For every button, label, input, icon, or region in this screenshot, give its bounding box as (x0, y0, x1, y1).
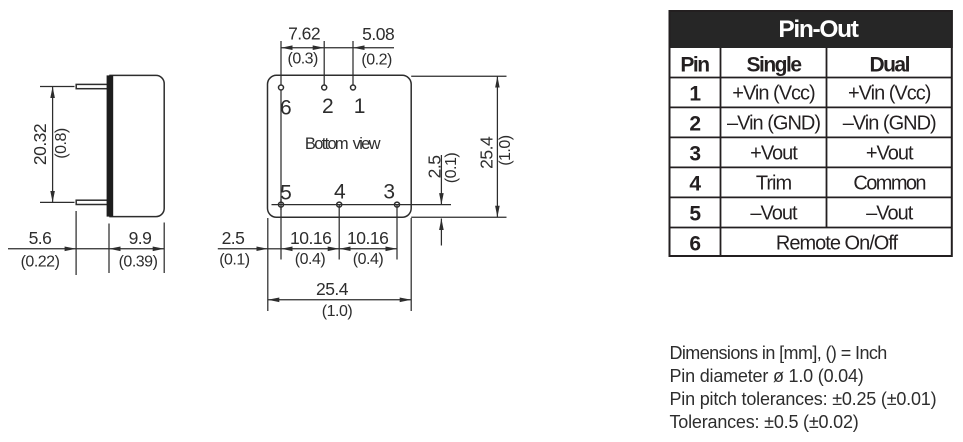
svg-text:25.4: 25.4 (476, 136, 496, 169)
svg-text:–Vin (GND): –Vin (GND) (727, 112, 820, 134)
svg-text:20.32: 20.32 (30, 124, 50, 165)
svg-text:Pin-Out: Pin-Out (778, 16, 858, 43)
svg-text:3: 3 (383, 181, 395, 204)
svg-text:+Vout: +Vout (750, 142, 798, 164)
svg-text:+Vin (Vcc): +Vin (Vcc) (848, 83, 931, 105)
svg-text:Tolerances: ±0.5 (±0.02): Tolerances: ±0.5 (±0.02) (670, 412, 859, 432)
svg-text:5.6: 5.6 (29, 228, 52, 248)
svg-text:7.62: 7.62 (288, 24, 320, 44)
svg-text:(0.1): (0.1) (443, 153, 460, 184)
svg-text:5: 5 (689, 203, 701, 226)
svg-text:3: 3 (689, 142, 700, 165)
svg-text:10.16: 10.16 (347, 228, 388, 248)
svg-text:(1.0): (1.0) (322, 303, 353, 320)
svg-text:4: 4 (334, 181, 346, 204)
svg-text:Bottom view: Bottom view (305, 135, 381, 153)
svg-text:2.5: 2.5 (424, 156, 444, 179)
svg-text:(0.4): (0.4) (295, 251, 326, 268)
svg-text:–Vout: –Vout (866, 203, 914, 225)
svg-text:5.08: 5.08 (362, 24, 394, 44)
svg-text:2: 2 (689, 112, 700, 135)
svg-text:+Vin (Vcc): +Vin (Vcc) (732, 83, 815, 105)
svg-text:1: 1 (354, 95, 366, 118)
svg-text:(0.1): (0.1) (219, 252, 250, 269)
svg-text:(0.2): (0.2) (361, 51, 392, 68)
svg-text:1: 1 (689, 83, 701, 106)
svg-text:(0.3): (0.3) (287, 50, 318, 67)
svg-text:9.9: 9.9 (129, 228, 152, 248)
svg-text:25.4: 25.4 (316, 279, 349, 299)
svg-text:4: 4 (689, 172, 701, 195)
svg-text:Pin pitch tolerances: ±0.25 (±: Pin pitch tolerances: ±0.25 (±0.01) (670, 389, 937, 409)
svg-text:–Vin (GND): –Vin (GND) (843, 112, 936, 134)
svg-text:(0.8): (0.8) (53, 128, 70, 159)
svg-text:Single: Single (746, 54, 801, 77)
svg-text:(1.0): (1.0) (497, 135, 514, 166)
svg-text:10.16: 10.16 (290, 228, 331, 248)
svg-text:Dual: Dual (869, 54, 909, 77)
svg-text:Pin: Pin (680, 54, 709, 77)
svg-text:Common: Common (853, 172, 925, 194)
svg-text:6: 6 (280, 96, 292, 119)
svg-text:Remote On/Off: Remote On/Off (776, 232, 899, 254)
svg-text:Trim: Trim (756, 172, 792, 194)
svg-text:2.5: 2.5 (222, 228, 245, 248)
svg-text:2: 2 (322, 95, 334, 118)
svg-text:6: 6 (689, 232, 700, 255)
svg-text:–Vout: –Vout (750, 203, 798, 225)
svg-text:Dimensions in [mm], () = Inch: Dimensions in [mm], () = Inch (670, 343, 887, 363)
svg-text:(0.22): (0.22) (21, 254, 60, 271)
svg-text:+Vout: +Vout (866, 142, 914, 164)
svg-text:(0.4): (0.4) (353, 251, 384, 268)
svg-text:5: 5 (280, 181, 292, 204)
svg-text:Pin diameter ø 1.0 (0.04): Pin diameter ø 1.0 (0.04) (670, 366, 864, 386)
svg-text:(0.39): (0.39) (119, 254, 158, 271)
